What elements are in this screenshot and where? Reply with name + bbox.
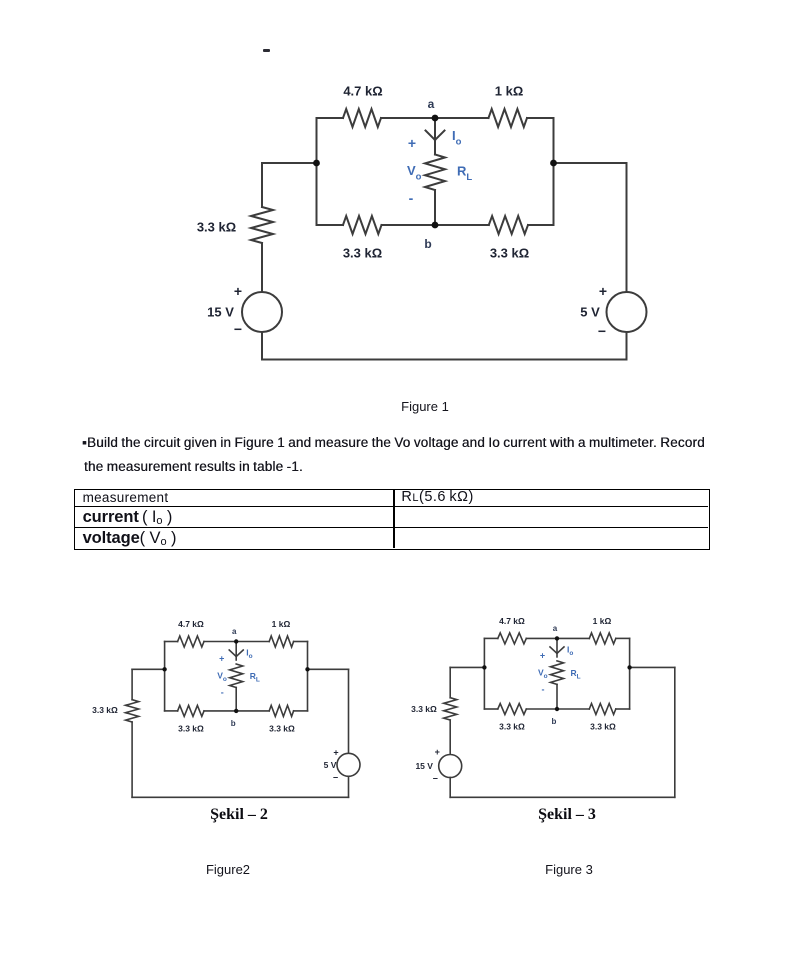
arrowhead of Io current arrow xyxy=(426,131,436,141)
wire: fig2 top mid xyxy=(204,641,269,643)
wire: fig3 bottom inner left xyxy=(484,708,497,710)
wire: outer left vertical to source xyxy=(261,243,263,292)
wire: bottom outer horizontal xyxy=(262,359,627,361)
left junction dot fig2 xyxy=(162,667,166,671)
table cell: RL(5.6 kOhm) xyxy=(401,489,473,505)
wire: inner left vertical xyxy=(316,118,318,225)
svg-text:-: - xyxy=(221,688,224,698)
wire: inner right vertical xyxy=(553,118,555,225)
wire: fig2 right connector xyxy=(308,668,349,670)
wire: node a to 1k resistor xyxy=(435,117,489,119)
wire: bottom inner middle to node b xyxy=(382,224,489,226)
resistor fig2 3.3k outer-left vertical xyxy=(126,700,139,722)
svg-text:+: + xyxy=(219,654,224,664)
svg-text:1 kΩ: 1 kΩ xyxy=(495,84,524,99)
svg-text:4.7 kΩ: 4.7 kΩ xyxy=(499,616,525,626)
resistor fig3 3.3k outer-left vertical xyxy=(444,698,457,720)
node a junction dot xyxy=(432,115,439,122)
wire: fig2 bottom inner mid xyxy=(204,710,269,712)
svg-text:Io: Io xyxy=(452,128,462,148)
node b junction dot xyxy=(432,222,439,229)
node a dot fig2 xyxy=(234,639,238,643)
table column divider xyxy=(393,490,395,548)
resistor 3.3 k ohm (outer left, vertical) xyxy=(251,207,273,243)
wire: fig3 RL to node b xyxy=(556,684,558,709)
wire: fig2 top right xyxy=(294,641,308,643)
wire: RL bottom to node b xyxy=(434,190,436,225)
wire: fig2 inner left vertical xyxy=(164,642,166,711)
wire: node a down (Io arrow shaft) xyxy=(434,118,436,146)
resistor fig2 3.3k bottom-left xyxy=(178,705,204,716)
caption Figure2 xyxy=(128,862,328,877)
svg-text:1 kΩ: 1 kΩ xyxy=(593,616,612,626)
voltage source 15 V xyxy=(242,292,282,332)
wire: bottom-left inner segment xyxy=(317,224,344,226)
svg-text:3.3 kΩ: 3.3 kΩ xyxy=(490,246,529,261)
svg-text:−: − xyxy=(433,774,438,784)
svg-text:b: b xyxy=(552,717,557,726)
wire: top middle segment to node a xyxy=(381,117,435,119)
svg-text:4.7 kΩ: 4.7 kΩ xyxy=(178,619,204,629)
svg-text:4.7 kΩ: 4.7 kΩ xyxy=(343,84,382,99)
stray dash mark xyxy=(263,49,270,52)
caption Sekil - 3 xyxy=(467,806,667,824)
wire: fig2 outer right upper xyxy=(348,669,350,753)
svg-text:-: - xyxy=(542,684,545,694)
right junction dot fig2 xyxy=(305,667,309,671)
resistor 3.3 k ohm (bottom right) xyxy=(489,216,528,234)
right junction dot fig3 xyxy=(627,665,631,669)
resistor fig3 1k top-right xyxy=(589,633,616,644)
table row divider 2 xyxy=(75,527,708,529)
svg-text:1 kΩ: 1 kΩ xyxy=(272,619,291,629)
right junction dot xyxy=(550,160,557,167)
svg-text:15 V: 15 V xyxy=(207,305,234,320)
voltage source fig3 15 V xyxy=(439,755,462,778)
svg-text:+: + xyxy=(408,135,416,151)
wire: fig2 inner top left xyxy=(165,641,178,643)
svg-text:3.3 kΩ: 3.3 kΩ xyxy=(178,723,204,733)
wire: fig2 bottom outer xyxy=(132,796,348,798)
wire: fig2 Io arrow shaft xyxy=(235,642,237,661)
svg-text:3.3 kΩ: 3.3 kΩ xyxy=(269,723,295,733)
wire: fig2 bottom inner left xyxy=(165,710,178,712)
node b dot fig2 xyxy=(234,709,238,713)
wire: fig3 left connector xyxy=(450,666,484,668)
resistor fig3 4.7k top-left xyxy=(498,633,527,644)
voltage source 5 V xyxy=(607,292,647,332)
svg-text:−: − xyxy=(598,323,606,339)
wire: fig3 Io arrow shaft xyxy=(556,638,558,657)
node b dot fig3 xyxy=(555,707,559,711)
resistor fig2 1k top-right xyxy=(269,636,293,647)
table cell: current (Io) xyxy=(83,508,173,527)
wire: 15V source to bottom xyxy=(261,332,263,360)
wire: fig3 outer left upper xyxy=(449,667,451,697)
svg-text:Vo: Vo xyxy=(217,671,227,684)
wire: fig2 left connector xyxy=(132,668,165,670)
wire: fig2 5V to bottom xyxy=(348,776,350,797)
wire: left junction connector xyxy=(262,162,317,164)
left junction dot fig3 xyxy=(482,665,486,669)
resistor fig2 RL vertical xyxy=(230,664,243,688)
svg-text:+: + xyxy=(540,650,545,660)
svg-text:RL: RL xyxy=(571,668,581,681)
svg-text:+: + xyxy=(599,283,607,299)
svg-text:Io: Io xyxy=(567,644,573,657)
wire: outer left vertical upper xyxy=(261,163,263,207)
svg-text:3.3 kΩ: 3.3 kΩ xyxy=(92,705,118,715)
wire: fig3 inner right vertical xyxy=(629,638,631,709)
voltage source fig2 5 V xyxy=(337,753,360,776)
svg-text:3.3 kΩ: 3.3 kΩ xyxy=(499,722,525,732)
wire: fig2 outer left upper xyxy=(131,669,133,699)
resistor fig3 3.3k bottom-right xyxy=(589,704,616,715)
wire: fig3 top right xyxy=(616,637,630,639)
svg-text:b: b xyxy=(231,719,236,728)
table row divider 1 xyxy=(75,506,708,508)
wire: fig3 right connector xyxy=(630,666,675,668)
svg-text:3.3 kΩ: 3.3 kΩ xyxy=(590,722,616,732)
svg-text:3.3 kΩ: 3.3 kΩ xyxy=(343,246,382,261)
resistor fig3 RL vertical xyxy=(551,661,564,685)
svg-text:+: + xyxy=(333,747,338,757)
arrowhead fig2 Io xyxy=(229,650,236,657)
wire: bottom-right inner segment xyxy=(528,224,554,226)
bullet paragraph line 2 xyxy=(84,459,784,474)
svg-text:a: a xyxy=(428,97,435,111)
measurement table xyxy=(74,489,710,550)
caption Sekil - 2 xyxy=(139,806,339,824)
svg-text:15 V: 15 V xyxy=(415,761,433,771)
bullet paragraph line 1 xyxy=(82,435,782,450)
svg-text:RL: RL xyxy=(457,164,472,184)
svg-text:3.3 kΩ: 3.3 kΩ xyxy=(197,220,236,235)
wire: fig3 bottom outer xyxy=(450,796,675,798)
svg-text:b: b xyxy=(424,237,431,251)
wire: top-right segment xyxy=(527,117,554,119)
wire: fig3 inner top left xyxy=(484,637,497,639)
svg-text:+: + xyxy=(435,747,440,757)
caption Figure 3 xyxy=(469,862,669,877)
wire: fig3 outer left to 15V source xyxy=(449,720,451,755)
svg-text:−: − xyxy=(333,772,338,782)
resistor 1 k ohm (top right) xyxy=(489,109,528,127)
wire: fig2 outer left lower xyxy=(131,722,133,797)
resistor fig3 3.3k bottom-left xyxy=(498,704,527,715)
table cell: measurement xyxy=(83,490,169,505)
wire: fig3 outer right vertical xyxy=(674,667,676,797)
resistor R 4.7 k ohm (top left) xyxy=(343,109,381,127)
wire: fig3 top mid xyxy=(526,637,589,639)
resistor fig2 3.3k bottom-right xyxy=(269,705,293,716)
wire: fig3 bottom inner mid xyxy=(526,708,589,710)
wire: fig2 RL to node b xyxy=(235,688,237,711)
resistor 3.3 k ohm (bottom left) xyxy=(343,216,382,234)
svg-text:a: a xyxy=(232,627,237,636)
wire: fig3 inner left vertical xyxy=(483,638,485,709)
wire: top-left segment (inner loop top) xyxy=(317,117,344,119)
svg-text:+: + xyxy=(234,283,242,299)
wire: fig3 bottom inner right xyxy=(616,708,630,710)
svg-text:3.3 kΩ: 3.3 kΩ xyxy=(411,704,437,714)
wire: outer right vertical upper xyxy=(626,163,628,292)
table cell: voltage (Vo) xyxy=(83,529,177,548)
left junction dot xyxy=(313,160,320,167)
wire: fig3 15V to bottom xyxy=(449,778,451,798)
node a dot fig3 xyxy=(555,636,559,640)
wire: 5V source to bottom xyxy=(626,332,628,360)
svg-text:5 V: 5 V xyxy=(324,760,337,770)
svg-text:RL: RL xyxy=(250,671,260,684)
wire: fig2 inner right vertical xyxy=(307,642,309,711)
wire: right junction connector xyxy=(554,162,627,164)
svg-text:Io: Io xyxy=(246,648,252,661)
svg-text:5 V: 5 V xyxy=(580,305,600,320)
resistor RL (load, vertical) xyxy=(434,146,436,155)
wire: fig2 bottom inner right xyxy=(294,710,308,712)
caption Figure 1 xyxy=(0,398,786,416)
svg-text:-: - xyxy=(409,190,414,206)
svg-text:Vo: Vo xyxy=(538,667,548,680)
svg-text:−: − xyxy=(234,321,242,337)
svg-text:a: a xyxy=(553,624,558,633)
resistor fig2 4.7k top-left xyxy=(178,636,204,647)
svg-text:Vo: Vo xyxy=(407,163,422,183)
arrowhead fig3 Io xyxy=(550,647,557,654)
